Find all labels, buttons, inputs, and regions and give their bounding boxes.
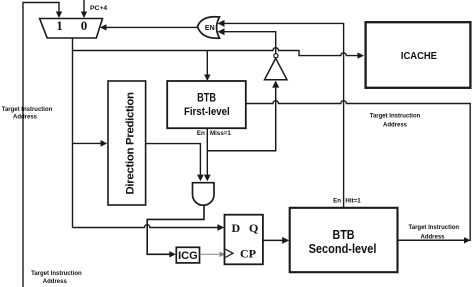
svg-text:Target Instruction: Target Instruction <box>2 107 53 113</box>
svg-text:PC+4: PC+4 <box>90 5 107 12</box>
block BTB Second-level <box>290 208 398 272</box>
wire mux output vertical <box>72 38 74 228</box>
pin clock triangle <box>226 249 233 257</box>
svg-text:0: 0 <box>81 18 88 33</box>
svg-text:Address: Address <box>43 279 68 285</box>
wire branch to inverter input <box>207 87 275 151</box>
gate AND (pointing down) <box>193 183 215 206</box>
wire branch arrow into Direction Prediction <box>73 142 103 144</box>
flip-flop U1 (D Q CP) <box>225 215 263 265</box>
wire feedback left vertical (target instruction address to mux input 1) <box>23 3 59 287</box>
svg-text:EN: EN <box>205 25 215 32</box>
svg-text:Address: Address <box>13 115 38 121</box>
svg-text:Address: Address <box>383 123 408 129</box>
wire AND output to ICG <box>147 205 204 254</box>
block ICACHE <box>366 22 471 88</box>
block ICG <box>176 247 199 263</box>
block BTB First-level <box>167 81 246 128</box>
node arrow into ICACHE <box>358 52 365 58</box>
wire BTB second-level output arrow <box>398 239 466 241</box>
wire target instruction address from BTB first-level to right edge (hops) <box>246 101 470 241</box>
svg-text:BTB: BTB <box>332 228 354 242</box>
wire D input line (with hop over ICG drop) <box>73 225 219 228</box>
wire Direction Prediction to AND gate <box>146 144 201 176</box>
mux M1 <box>40 19 103 39</box>
inverter bubble <box>274 54 278 58</box>
wire EN gate output to mux select <box>102 26 198 28</box>
svg-text:Target Instruction: Target Instruction <box>370 114 421 120</box>
svg-text:En: En <box>197 130 205 137</box>
svg-text:BTB: BTB <box>197 92 216 104</box>
svg-text:Miss=1: Miss=1 <box>210 130 231 137</box>
wire Hit/En vertical up to EN gate <box>224 23 344 207</box>
svg-text:First-level: First-level <box>184 106 230 118</box>
svg-text:ICG: ICG <box>178 250 198 262</box>
wire main horizontal to ICACHE with hops <box>73 48 358 56</box>
svg-text:D: D <box>232 221 241 235</box>
svg-text:Hit=1: Hit=1 <box>345 197 361 204</box>
block Direction Prediction <box>108 81 146 205</box>
svg-text:ICACHE: ICACHE <box>401 50 437 62</box>
node arrow into mux input 0 <box>81 12 87 19</box>
wire En Miss from BTB first-level down to AND gate <box>206 128 208 175</box>
svg-text:Target Instruction: Target Instruction <box>31 271 82 277</box>
wire Q output to BTB second-level <box>263 239 284 241</box>
node arrow into mux input 1 <box>56 12 62 19</box>
svg-text:1: 1 <box>56 18 63 33</box>
svg-text:Address: Address <box>420 234 445 240</box>
wire inverter output up and left to EN gate <box>224 32 276 54</box>
wire branch down into BTB first-level <box>206 51 208 76</box>
gate EN (pointing left) <box>198 17 220 38</box>
svg-text:Direction Prediction: Direction Prediction <box>124 92 136 195</box>
svg-text:CP: CP <box>240 247 256 261</box>
inverter triangle <box>265 58 288 80</box>
svg-text:Q: Q <box>249 221 258 235</box>
wire ICG to DFF clock (thin gray) <box>200 253 221 255</box>
wire PC+4 input <box>83 0 85 13</box>
svg-text:En: En <box>333 197 341 204</box>
svg-text:Target Instruction: Target Instruction <box>409 225 460 231</box>
svg-text:Second-level: Second-level <box>309 242 377 256</box>
